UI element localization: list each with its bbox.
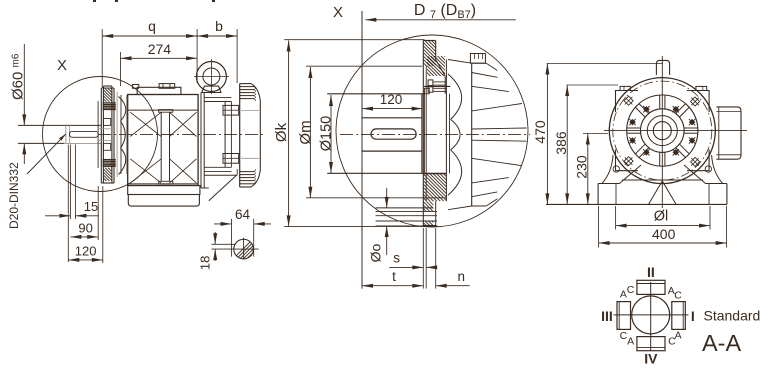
svg-text:A-A: A-A (702, 330, 742, 356)
svg-text:18: 18 (198, 256, 213, 270)
svg-text:274: 274 (148, 41, 172, 57)
svg-text:A: A (675, 330, 682, 342)
svg-text:15: 15 (84, 199, 98, 214)
svg-text:D20-DIN332: D20-DIN332 (7, 162, 21, 229)
svg-text:X: X (57, 57, 67, 74)
svg-text:400: 400 (652, 226, 676, 242)
svg-text:q: q (148, 18, 156, 34)
svg-text:Øm: Øm (297, 120, 314, 144)
svg-text:Øk: Øk (273, 122, 290, 142)
svg-text:120: 120 (380, 92, 403, 107)
svg-text:C: C (674, 290, 682, 302)
svg-text:b: b (215, 18, 223, 34)
svg-text:C: C (627, 284, 635, 296)
svg-text:X: X (333, 4, 343, 21)
svg-text:Standard: Standard (704, 308, 761, 324)
svg-text:Ø150: Ø150 (319, 116, 335, 151)
svg-text:t: t (392, 269, 396, 284)
svg-text:230: 230 (574, 155, 590, 179)
svg-text:120: 120 (75, 244, 97, 259)
svg-text:64: 64 (235, 207, 251, 222)
svg-text:III: III (601, 308, 613, 324)
svg-text:A: A (627, 335, 634, 347)
svg-text:IV: IV (644, 351, 658, 367)
svg-text:470: 470 (532, 120, 548, 144)
svg-text:s: s (393, 251, 400, 266)
svg-text:386: 386 (553, 131, 569, 155)
svg-text:Øl: Øl (654, 209, 669, 225)
svg-text:I: I (691, 308, 695, 324)
svg-text:II: II (647, 264, 655, 280)
svg-text:90: 90 (78, 221, 92, 236)
svg-text:n: n (458, 269, 466, 284)
svg-text:Øo: Øo (368, 243, 384, 262)
